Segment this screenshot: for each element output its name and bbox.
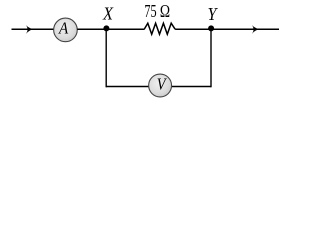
current arrow (left) xyxy=(26,25,33,34)
svg-text:Y: Y xyxy=(208,4,219,24)
current arrow (right) xyxy=(252,25,259,34)
wire: X branch down xyxy=(105,29,107,87)
label 75 Ω xyxy=(144,1,170,21)
svg-text:X: X xyxy=(102,4,114,24)
svg-text:75: 75 xyxy=(144,1,156,21)
svg-text:Ω: Ω xyxy=(160,1,170,21)
svg-text:A: A xyxy=(58,18,69,37)
node Y xyxy=(208,25,214,31)
wire: ammeter to resistor (through node X) xyxy=(77,28,144,30)
voltmeter U-V xyxy=(149,74,172,97)
wire: resistor to node Y to output xyxy=(175,28,279,30)
wire: Y branch down xyxy=(210,29,212,87)
svg-text:V: V xyxy=(157,75,167,94)
wire: left input lead xyxy=(12,28,54,30)
wire: bottom loop xyxy=(106,86,211,88)
node X xyxy=(103,25,109,31)
resistor R 75ohm xyxy=(144,23,175,34)
ammeter U-A xyxy=(54,18,78,42)
